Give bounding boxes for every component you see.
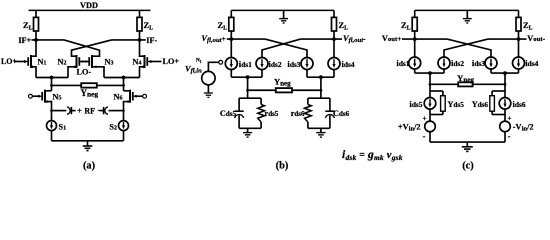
svg-text:Vout-: Vout- <box>527 34 545 43</box>
svg-text:LO+: LO+ <box>1 57 17 66</box>
svg-text:LO-: LO- <box>77 68 92 77</box>
svg-text:N1: N1 <box>38 57 47 66</box>
svg-text:-: - <box>423 131 426 141</box>
svg-text:ids6: ids6 <box>513 99 526 109</box>
svg-text:rds5: rds5 <box>265 109 279 118</box>
svg-text:VDD: VDD <box>80 1 98 10</box>
svg-text:ids3: ids3 <box>472 58 485 68</box>
svg-text:N6: N6 <box>113 93 122 102</box>
svg-text:ids4: ids4 <box>525 58 538 68</box>
svg-text:Cds5: Cds5 <box>220 109 237 118</box>
svg-text:ids2: ids2 <box>451 58 464 68</box>
svg-text:(b): (b) <box>276 161 289 172</box>
svg-text:(a): (a) <box>83 161 95 172</box>
svg-text:RF: RF <box>84 106 95 115</box>
svg-text:S1: S1 <box>59 123 67 132</box>
svg-text:ids2: ids2 <box>269 59 282 69</box>
svg-text:Yneg: Yneg <box>81 88 99 99</box>
svg-text:-: - <box>508 131 511 141</box>
svg-text:N2: N2 <box>57 57 66 66</box>
svg-text:N4: N4 <box>132 57 141 66</box>
svg-text:ids1: ids1 <box>239 59 252 69</box>
svg-text:+: + <box>77 105 82 115</box>
svg-text:ids5: ids5 <box>409 99 422 109</box>
svg-text:ids3: ids3 <box>287 59 300 69</box>
svg-text:ids1: ids1 <box>396 58 409 68</box>
svg-text:N3: N3 <box>105 57 114 66</box>
svg-text:+: + <box>508 115 512 123</box>
svg-text:Cds6: Cds6 <box>333 109 350 118</box>
svg-text:N5: N5 <box>53 93 62 102</box>
svg-text:Yds5: Yds5 <box>448 100 465 109</box>
svg-text:(c): (c) <box>462 161 474 172</box>
svg-text:IF-: IF- <box>146 36 157 45</box>
svg-text:ids4: ids4 <box>342 59 355 69</box>
svg-text:rds6: rds6 <box>291 109 305 118</box>
svg-text:Vout+: Vout+ <box>382 34 402 43</box>
svg-text:Yds6: Yds6 <box>472 100 489 109</box>
svg-text:+: + <box>423 115 427 123</box>
svg-text:LO+: LO+ <box>163 57 180 66</box>
svg-text:S2: S2 <box>109 123 117 132</box>
svg-text:IF+: IF+ <box>18 36 31 45</box>
